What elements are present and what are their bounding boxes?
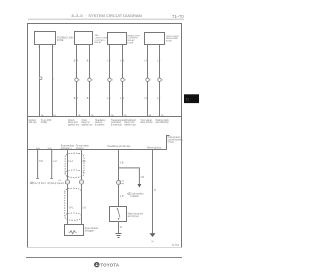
destination label: charge relay [41,120,52,124]
svg-text:ignition sw: ignition sw [68,124,79,127]
svg-text:1-B: 1-B [140,177,144,179]
svg-text:body: body [120,183,124,185]
svg-text:B-R: B-R [74,61,78,63]
svg-text:defogger +: defogger + [61,147,73,150]
svg-text:and tail lamp: and tail lamp [156,121,170,124]
svg-text:L-O: L-O [53,161,57,163]
header rule [28,18,184,20]
label: rear window defogger feed [61,144,75,149]
svg-text:FUSE: FUSE [57,39,64,42]
svg-text:RELAY: RELAY [95,41,103,44]
thumb index tab 71 [184,94,199,103]
wire 8 L-Y [157,45,164,118]
svg-text:W-B: W-B [36,148,41,150]
component box: headlight control relay [108,33,141,45]
rear window defogger heater [65,225,99,236]
wire 5 L-B [107,45,114,118]
wire below switch [119,222,123,234]
shield capsule 1 (dashed) [65,153,84,177]
svg-text:(k): (k) [151,241,154,243]
label: turn signal centre [76,144,90,149]
svg-text:8–3–5 · SYSTEM CIRCUIT DIAGR: 8–3–5 · SYSTEM CIRCUIT DIAGRAM [72,13,142,18]
svg-text:Turn (if the h. off) lamp syst: Turn (if the h. off) lamp system 1 [33,182,67,185]
destination label: taillamp [68,119,79,127]
component box: taillight control relay [75,32,108,45]
component box: fusible link block [35,32,82,49]
svg-text:Headlamp and fan line: Headlamp and fan line [108,146,132,148]
svg-text:fusibly: fusibly [41,122,48,124]
svg-text:& washer: & washer [95,124,105,127]
wire STL (lower left) [36,148,44,179]
caption: turn off system note [30,182,32,184]
junction bus line [28,116,182,118]
connector pair on defogger wires [65,180,83,184]
svg-text:L-R: L-R [145,61,149,63]
svg-text:L-Y: L-Y [157,98,161,100]
footer rule [26,257,182,259]
svg-text:STL: STL [39,161,44,163]
svg-text:1-B: 1-B [120,196,124,198]
wire 7 L-R [145,45,152,118]
svg-text:71: 71 [185,97,189,101]
svg-text:indicator: indicator [130,195,139,198]
wire body ground [153,150,157,234]
destination label: headlamp [95,120,106,127]
destination label: ignition coil [29,119,38,124]
destination label: front lamp [82,119,93,127]
connector on switch wire [116,180,124,185]
off-page reference label (top right of ground bus) [168,136,183,144]
svg-text:& solenoid: & solenoid [111,125,122,127]
svg-text:ignition sw: ignition sw [82,124,93,127]
svg-text:14-4: 14-4 [68,161,73,163]
wire L-O (lower left) [48,148,57,179]
svg-text:71-70-1: 71-70-1 [172,245,181,247]
water temp switch [110,207,144,222]
svg-text:Wheel ground: Wheel ground [147,147,162,150]
wire 2 (to charge circuit) [53,45,57,118]
destination label: transmission controlled [111,119,125,127]
svg-text:L-B: L-B [107,98,111,100]
ground bus line [28,136,170,150]
wire defogger minus [82,150,87,225]
svg-text:(71-8): (71-8) [168,142,174,144]
svg-text:defogger: defogger [85,230,94,233]
svg-text:(centre): (centre) [76,147,84,150]
wire 6 L-W [120,45,127,118]
destination label: parking tail rear lamp [156,119,170,124]
svg-text:coil cap: coil cap [29,122,38,124]
shield capsule 2 (dashed) [65,188,82,220]
ground arrow (body ground) [150,233,156,243]
wire 3 B-R [74,45,81,118]
svg-text:L-R: L-R [145,98,149,100]
svg-text:W-L: W-L [69,208,74,210]
svg-text:TOYOTA: TOYOTA [100,262,119,267]
component box: defogger relay [145,33,179,45]
svg-text:B-R: B-R [74,98,78,100]
ground (switch) [116,234,122,238]
destination label: turn signal and stop lamp [140,119,153,124]
wire to water temp switch [119,150,124,207]
wire 1 (to ignition coil) [39,45,44,118]
svg-text:L-B: L-B [107,61,111,63]
label: cool position indicator [127,192,144,197]
svg-text:washer sys: washer sys [124,124,136,127]
svg-text:L-B: L-B [82,208,86,210]
wire 4 B-L [87,45,94,118]
svg-text:FUSE: FUSE [166,41,172,43]
branch wire to cool position indicator [119,168,145,188]
svg-text:and (of) sw: and (of) sw [128,216,140,218]
destination label: windshield wiper [124,120,136,127]
svg-text:FUSE: FUSE [128,43,134,45]
svg-text:1-B: 1-B [120,163,124,165]
svg-text:L-Y: L-Y [157,61,161,63]
TOYOTA logo [95,262,120,267]
svg-text:lamp & stop: lamp & stop [140,121,153,124]
wire defogger plus [58,150,74,225]
svg-text:71–70: 71–70 [172,14,184,19]
